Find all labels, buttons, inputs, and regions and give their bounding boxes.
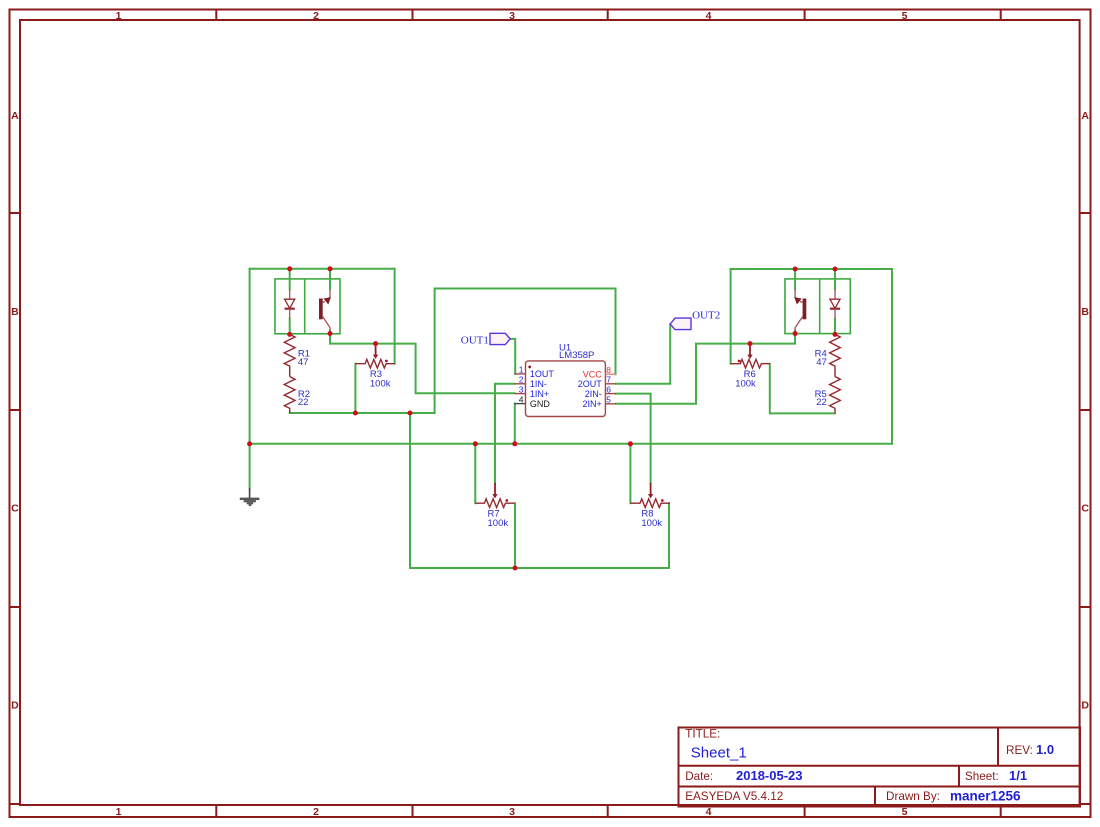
wire: R7 right terminal drop (514, 503, 516, 568)
svg-text:47: 47 (298, 357, 309, 368)
pin 7 stub (605, 383, 615, 385)
svg-text:GND: GND (530, 399, 551, 409)
svg-text:5: 5 (902, 806, 908, 818)
pin 6 stub (605, 393, 615, 395)
phototransistor Q2 (right) (794, 289, 806, 331)
svg-text:22: 22 (298, 397, 309, 408)
wire: right emitter node drop (794, 334, 796, 344)
resistor R4 (830, 334, 841, 376)
wire: R8 right terminal drop (668, 503, 670, 568)
svg-text:A: A (11, 110, 19, 122)
title block outline (679, 728, 1081, 807)
op-amp U1 body (526, 361, 606, 417)
junction: top rail / Q1 collector (328, 266, 333, 271)
wire: 2IN- to R8 wiper (616, 394, 651, 483)
optocoupler box right (U3 cell frames) (785, 279, 850, 334)
svg-text:1: 1 (116, 10, 122, 22)
potentiometer R7 (475, 483, 514, 508)
wire: right phototransistor collector drop (794, 269, 796, 289)
svg-text:3: 3 (519, 384, 524, 394)
svg-text:7: 7 (606, 375, 611, 385)
svg-text:2IN+: 2IN+ (583, 399, 602, 409)
wire: VCC net horizontal (R2 bottom to corner) (290, 412, 435, 414)
svg-text:6: 6 (606, 384, 611, 394)
svg-text:4: 4 (519, 394, 524, 404)
junction: R6 wiper node (748, 341, 753, 346)
svg-text:22: 22 (816, 397, 827, 408)
phototransistor Q1 (left) (319, 289, 331, 331)
junction: bus / R7 left riser (473, 441, 478, 446)
wire: bus right vertical up to right top rail (891, 269, 893, 444)
svg-text:1OUT: 1OUT (530, 369, 555, 379)
pin 5 stub (605, 403, 615, 405)
junction: Q1 emitter node (328, 331, 333, 336)
svg-text:100k: 100k (488, 518, 509, 529)
svg-text:2: 2 (313, 806, 319, 818)
wire: left emitter node down and across to 1IN+ riser (330, 334, 514, 394)
pin 8 stub (VCC) (605, 373, 615, 375)
wire: VCC loop up and over to pin 8 (435, 289, 616, 414)
net flag OUT1 (490, 333, 510, 344)
wire: right top rail (731, 268, 892, 270)
frame column ticks bottom (216, 805, 1000, 817)
svg-text:maner1256: maner1256 (950, 789, 1021, 804)
wire: left photodiode cathode to R1 (289, 319, 291, 335)
svg-text:1/1: 1/1 (1009, 768, 1027, 783)
svg-text:OUT2: OUT2 (692, 309, 720, 321)
junction: bus / R8 left riser (628, 441, 633, 446)
svg-text:B: B (1081, 306, 1089, 318)
wire: OUT2 flag to pin 7 (616, 325, 670, 384)
svg-text:3: 3 (509, 10, 515, 22)
wire: R8 left terminal riser to bus (629, 444, 631, 503)
junction: diode1 cathode / R1 (287, 332, 292, 337)
wire: 2IN+ to right divider node (616, 344, 795, 404)
wire: GND pin 4 drop to bus (514, 404, 516, 444)
wire: R6 left terminal riser to right top rail (730, 269, 732, 364)
wire: left phototransistor collector drop (329, 269, 331, 290)
potentiometer R6 (731, 346, 770, 369)
svg-text:Sheet:: Sheet: (965, 770, 999, 783)
wire: left photodiode anode drop (289, 269, 291, 290)
svg-text:100k: 100k (370, 378, 391, 389)
wire: lower loop from VCC net to bottom rail (409, 413, 411, 568)
svg-text:2: 2 (519, 375, 524, 385)
svg-text:C: C (11, 503, 19, 515)
svg-text:A: A (1081, 110, 1089, 122)
svg-text:TITLE:: TITLE: (685, 728, 720, 741)
svg-text:2: 2 (313, 10, 319, 22)
potentiometer R3 (355, 346, 394, 369)
wire: R3 right terminal riser to top rail (394, 269, 396, 364)
junction: top rail / diode1 anode (287, 266, 292, 271)
wire: R3 left terminal drop to VCC net (354, 364, 356, 413)
svg-text:1IN-: 1IN- (530, 379, 547, 389)
junction: R3 left / VCC net (353, 411, 358, 416)
svg-text:3: 3 (509, 806, 515, 818)
wire: OUT1 flag to pin 1 (510, 339, 515, 374)
svg-text:2IN-: 2IN- (585, 389, 602, 399)
svg-text:1: 1 (519, 365, 524, 375)
wire: right phototransistor emitter stub (794, 331, 796, 334)
svg-text:Drawn By:: Drawn By: (886, 790, 940, 803)
optocoupler box left (U2 cell frames) (275, 279, 340, 334)
frame row ticks right (1080, 213, 1091, 804)
resistor R2 (284, 377, 295, 413)
junction: right top rail / diode2 anode (833, 267, 838, 272)
photodiode D1 (left) (285, 289, 295, 318)
frame column ticks top (216, 10, 1000, 21)
wire: left vertical rail down to ground net (249, 269, 251, 489)
svg-text:Sheet_1: Sheet_1 (691, 745, 747, 762)
svg-text:D: D (11, 700, 19, 712)
wire: left phototransistor emitter to node (329, 331, 331, 334)
junction: diode2 cathode / R4 (833, 332, 838, 337)
svg-text:1IN+: 1IN+ (530, 389, 549, 399)
svg-text:OUT1: OUT1 (461, 334, 489, 346)
wire: right photodiode cathode to R4 (834, 319, 836, 335)
pin 1 stub (514, 373, 525, 375)
svg-text:REV:: REV: (1006, 744, 1033, 757)
potentiometer R8 (630, 483, 670, 508)
junction: ground node on bus (247, 441, 252, 446)
junction: right top rail / Q2 collector (793, 267, 798, 272)
title block row dividers (679, 766, 1081, 787)
junction: bottom rail / R7 right (513, 566, 518, 571)
net flag OUT2 (670, 318, 691, 330)
svg-text:C: C (1081, 503, 1089, 515)
svg-text:Date:: Date: (685, 770, 713, 783)
svg-text:47: 47 (816, 357, 827, 368)
title block column dividers (875, 728, 998, 807)
svg-text:EASYEDA V5.4.12: EASYEDA V5.4.12 (685, 790, 783, 803)
ground symbol (240, 488, 260, 505)
svg-text:LM358P: LM358P (559, 350, 594, 361)
svg-text:D: D (1081, 700, 1089, 712)
svg-text:4: 4 (706, 10, 712, 22)
wire: R6 right terminal drop and across to R5 bottom (770, 364, 835, 414)
svg-text:1.0: 1.0 (1036, 742, 1054, 757)
photodiode D2 (right) (830, 289, 840, 318)
svg-text:VCC: VCC (583, 369, 603, 379)
svg-text:5: 5 (606, 395, 611, 405)
svg-text:100k: 100k (735, 378, 756, 389)
U1 pin-1 marker dot (528, 366, 531, 369)
pin 4 stub (GND) (514, 403, 525, 405)
pin 2 stub (514, 383, 525, 385)
svg-text:2018-05-23: 2018-05-23 (736, 768, 803, 783)
junction: Q2 emitter node (793, 331, 798, 336)
wire: ground bus (250, 443, 892, 445)
wire: right photodiode anode drop (834, 269, 836, 289)
svg-text:B: B (11, 306, 19, 318)
wire: bottom rail (410, 567, 669, 569)
wire: R7 left terminal riser to bus (474, 444, 476, 503)
frame row ticks left (10, 213, 21, 804)
svg-text:4: 4 (706, 806, 712, 818)
svg-text:8: 8 (606, 365, 611, 375)
pin 3 stub (514, 393, 525, 395)
junction: R3 wiper node (373, 341, 378, 346)
resistor R1 (284, 334, 295, 376)
svg-text:5: 5 (902, 10, 908, 22)
svg-text:2OUT: 2OUT (578, 379, 603, 389)
junction: VCC net / bottom loop (408, 411, 413, 416)
wire: 1IN- to R7 wiper (495, 384, 514, 483)
svg-text:100k: 100k (641, 518, 662, 529)
svg-text:1: 1 (116, 806, 122, 818)
junction: bus / GND pin drop (512, 441, 517, 446)
wire: left top rail (250, 268, 395, 270)
resistor R5 (830, 377, 841, 414)
